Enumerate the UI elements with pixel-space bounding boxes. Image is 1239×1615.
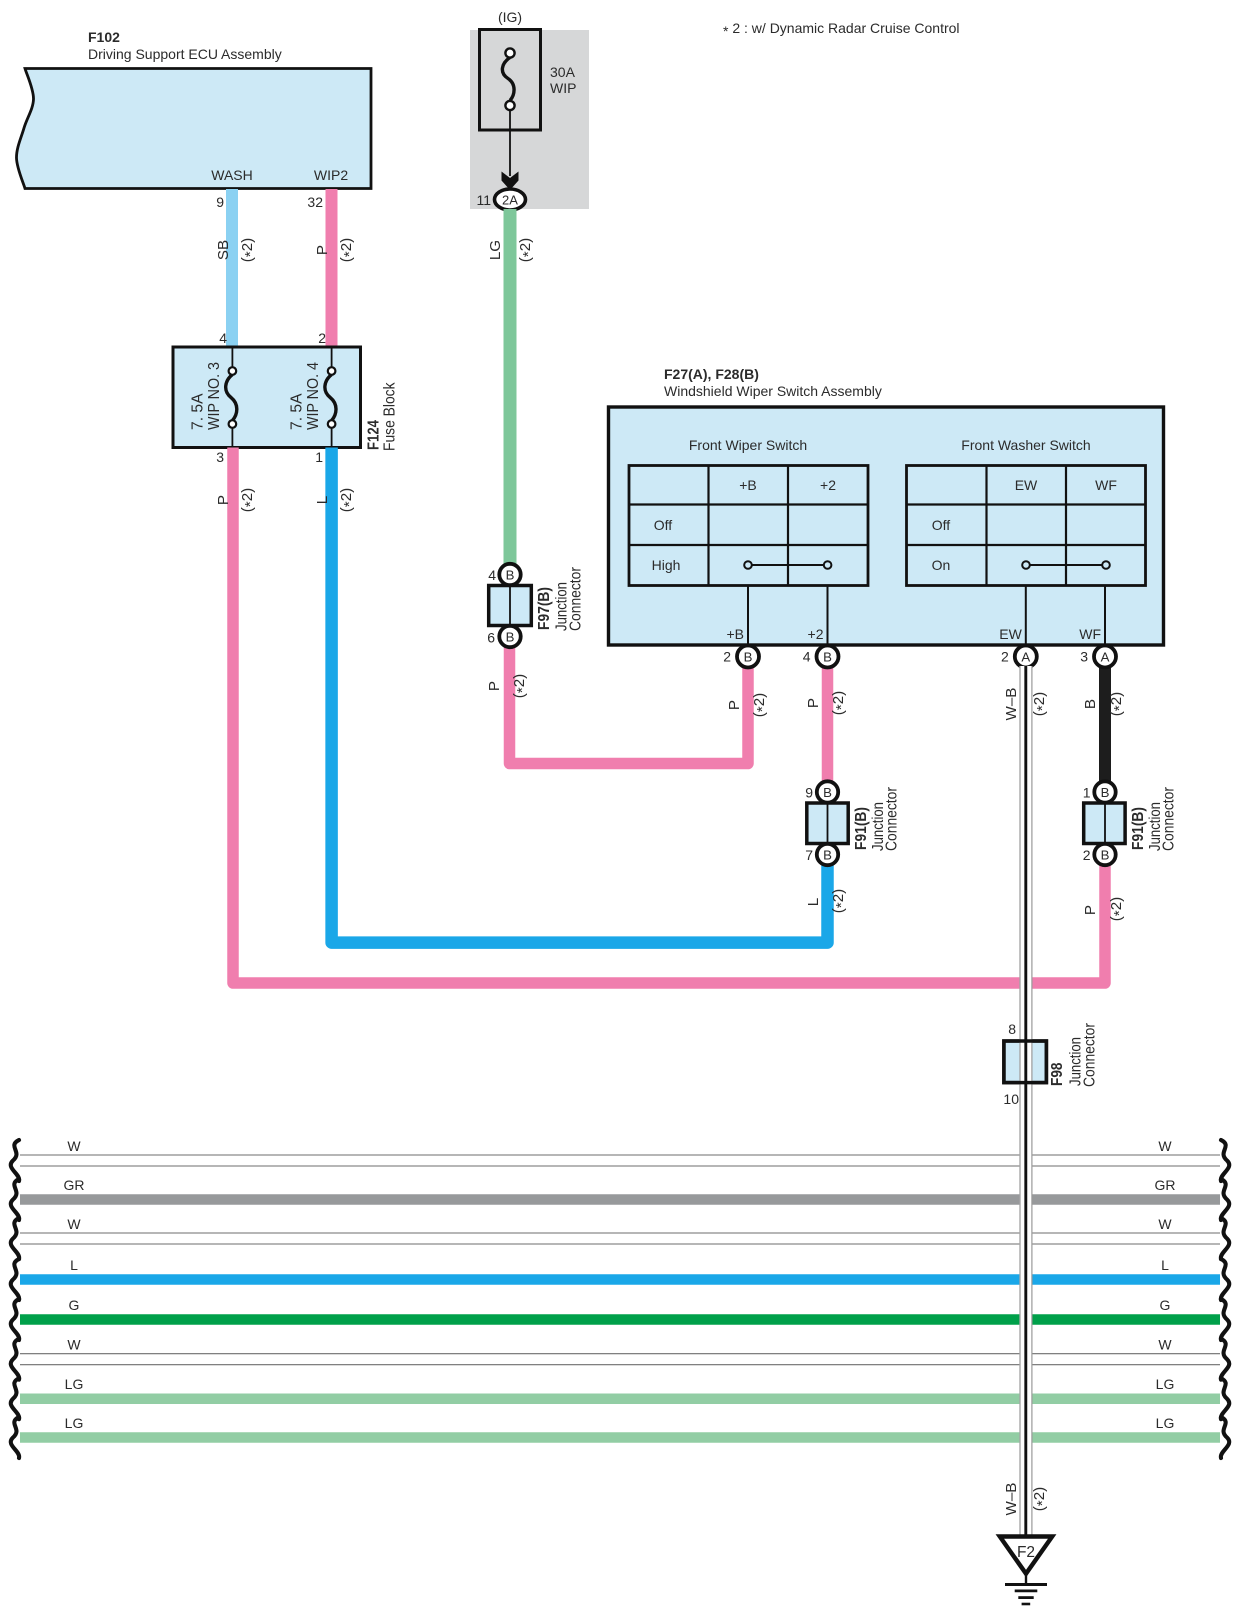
F91(B) left pin 9 — [805, 781, 838, 802]
wire GR (harness run) — [11, 1177, 1230, 1220]
svg-text:(*2): (*2) — [830, 691, 850, 716]
svg-text:+B: +B — [739, 477, 757, 493]
svg-text:7. 5A: 7. 5A — [190, 393, 207, 430]
svg-text:2: 2 — [1001, 649, 1009, 665]
svg-text:2: 2 — [1083, 847, 1091, 863]
washer switch internal wires to EW and WF terminals — [999, 586, 1105, 646]
wire P from fuse block pin 3 to F91(B) right pin 2 (long pink bus) — [233, 448, 1105, 984]
svg-text:3: 3 — [216, 449, 224, 465]
wire LG (harness run) — [11, 1415, 1230, 1458]
svg-text:Connector: Connector — [568, 566, 585, 631]
svg-text:+2: +2 — [820, 477, 836, 493]
svg-text:P: P — [486, 681, 503, 691]
svg-text:(*2): (*2) — [511, 674, 531, 699]
label P (*2) — [314, 238, 358, 263]
svg-text:LG: LG — [65, 1415, 84, 1431]
svg-text:Fuse Block: Fuse Block — [382, 382, 399, 451]
svg-text:WIP NO. 4: WIP NO. 4 — [305, 362, 322, 430]
svg-text:W: W — [67, 1216, 81, 1232]
svg-text:F91(B): F91(B) — [853, 807, 870, 850]
note: variant footnote — [723, 20, 960, 39]
svg-text:Driving Support ECU Assembly: Driving Support ECU Assembly — [88, 46, 282, 62]
F91(B) left pin 7 — [805, 844, 838, 865]
front wiper switch table — [629, 437, 868, 586]
svg-text:B: B — [744, 650, 753, 665]
svg-text:+B: +B — [726, 626, 744, 642]
svg-text:7: 7 — [805, 847, 813, 863]
svg-text:30A: 30A — [550, 64, 576, 80]
svg-text:2: 2 — [318, 330, 326, 346]
label SB (*2) — [215, 238, 259, 263]
svg-text:1: 1 — [1083, 785, 1091, 801]
svg-text:W: W — [1158, 1216, 1172, 1232]
svg-text:F97(B): F97(B) — [536, 587, 553, 630]
svg-text:W: W — [1158, 1138, 1172, 1154]
fuse block F124 — [173, 347, 361, 448]
front washer switch table — [907, 437, 1146, 586]
node 2A (pin 11) — [476, 189, 525, 210]
svg-text:B: B — [823, 785, 832, 800]
wire from fuse to node 2A with arrowhead — [502, 110, 519, 190]
F91(B) right pin 1 — [1083, 781, 1116, 802]
svg-text:7. 5A: 7. 5A — [289, 393, 306, 430]
wire L from fuse block pin 1 to F91(B) left pin 7 (blue bus) — [332, 448, 828, 943]
svg-text:W: W — [67, 1337, 81, 1353]
wire W (harness run) — [11, 1138, 1230, 1181]
wire L (harness run) — [11, 1257, 1230, 1300]
svg-text:2: 2 — [723, 649, 731, 665]
svg-text:P: P — [215, 495, 232, 505]
label W-B (*2) upper — [1003, 688, 1051, 721]
svg-text:GR: GR — [1155, 1177, 1176, 1193]
svg-text:High: High — [652, 557, 681, 573]
label L (*2) below fuse pin 1 — [314, 488, 358, 513]
svg-text:P: P — [726, 700, 743, 710]
svg-text:4: 4 — [803, 649, 811, 665]
fuse 7.5A WIP NO. 4 — [289, 348, 337, 446]
svg-text:(*2): (*2) — [338, 488, 358, 513]
svg-text:(*2): (*2) — [1031, 1487, 1051, 1512]
wire W (harness run) — [11, 1337, 1230, 1380]
connector F27(A), F28(B) Windshield Wiper Switch Assembly — [609, 366, 1164, 645]
svg-text:F27(A), F28(B): F27(A), F28(B) — [664, 366, 759, 382]
connector F102 Driving Support ECU Assembly — [16, 29, 371, 189]
svg-text:P: P — [1082, 905, 1099, 915]
switch assembly pin 3(A) — [1080, 646, 1116, 668]
front wiper switch High contact — [744, 561, 831, 569]
label P (*2) below F91(B) right pin 2 — [1082, 897, 1128, 922]
svg-text:(*2): (*2) — [1108, 897, 1128, 922]
svg-text:P: P — [805, 698, 822, 708]
svg-text:LG: LG — [1156, 1415, 1175, 1431]
F97(B) pin 4 — [488, 564, 520, 585]
label W-B (*2) lower — [1003, 1483, 1051, 1516]
svg-text:P: P — [314, 245, 331, 255]
svg-text:9: 9 — [805, 785, 813, 801]
svg-text:(*2): (*2) — [517, 238, 537, 263]
svg-text:Connector: Connector — [884, 786, 901, 851]
wire W (harness run) — [11, 1216, 1230, 1259]
svg-text:+2: +2 — [808, 626, 824, 642]
svg-text:WF: WF — [1079, 626, 1101, 642]
svg-text:F102: F102 — [88, 29, 120, 45]
svg-text:WIP: WIP — [550, 80, 576, 96]
svg-text:GR: GR — [64, 1177, 85, 1193]
svg-text:B: B — [506, 630, 515, 645]
svg-text:* 2 : w/ Dynamic Radar Cruise: * 2 : w/ Dynamic Radar Cruise Control — [723, 20, 960, 39]
svg-text:4: 4 — [488, 567, 496, 583]
svg-text:L: L — [314, 496, 331, 504]
svg-text:WIP2: WIP2 — [314, 167, 348, 183]
svg-text:Front Wiper Switch: Front Wiper Switch — [689, 437, 807, 453]
power source (IG) panel — [470, 9, 589, 209]
svg-text:Front Washer Switch: Front Washer Switch — [961, 437, 1090, 453]
svg-text:SB: SB — [215, 240, 232, 260]
svg-text:A: A — [1101, 650, 1110, 665]
F98 border redraw over wire — [1004, 1041, 1047, 1083]
svg-text:11: 11 — [476, 192, 491, 208]
svg-text:Off: Off — [932, 517, 951, 533]
label P (*2) — [805, 691, 850, 716]
F97(B) pin 6 — [487, 626, 520, 647]
wire G (harness run) — [11, 1297, 1230, 1340]
svg-text:32: 32 — [307, 194, 323, 210]
svg-text:10: 10 — [1003, 1091, 1019, 1107]
svg-text:9: 9 — [216, 194, 224, 210]
svg-text:LG: LG — [65, 1376, 84, 1392]
svg-text:W–B: W–B — [1003, 688, 1020, 721]
svg-text:On: On — [932, 557, 951, 573]
svg-text:Off: Off — [654, 517, 673, 533]
svg-text:(IG): (IG) — [498, 9, 522, 25]
ground F2 — [1000, 1537, 1052, 1605]
svg-text:B: B — [823, 650, 832, 665]
svg-text:3: 3 — [1080, 649, 1088, 665]
wire SB from F102 pin 9 to fuse block pin 4 — [226, 189, 238, 347]
svg-text:W: W — [1158, 1337, 1172, 1353]
wire P from F102 pin 32 to fuse block pin 2 — [326, 189, 338, 347]
svg-text:LG: LG — [487, 240, 504, 260]
svg-text:EW: EW — [1015, 477, 1038, 493]
svg-text:L: L — [1161, 1257, 1169, 1273]
wire LG from node 2A to junction F97(B) pin 4 — [504, 209, 517, 566]
svg-text:EW: EW — [999, 626, 1022, 642]
fuse 7.5A WIP NO. 3 — [190, 348, 237, 446]
label P (*2) on pin 2(B) side — [726, 693, 771, 718]
label L (*2) below F91(B) left pin 7 — [805, 889, 850, 914]
svg-text:(*2): (*2) — [830, 889, 850, 914]
svg-text:WF: WF — [1095, 477, 1117, 493]
svg-text:1: 1 — [315, 449, 323, 465]
svg-text:A: A — [1021, 650, 1030, 665]
svg-text:WIP NO. 3: WIP NO. 3 — [206, 362, 223, 430]
svg-text:(*2): (*2) — [1108, 692, 1128, 717]
wire P from switch pin 4(B) to F91(B) left pin 9 — [822, 666, 834, 783]
label F124 Fuse Block — [366, 382, 399, 451]
svg-text:B: B — [1101, 848, 1110, 863]
label P (*2) below fuse pin 3 — [215, 488, 259, 513]
svg-text:F2: F2 — [1017, 1544, 1035, 1561]
svg-text:8: 8 — [1008, 1021, 1016, 1037]
svg-text:L: L — [70, 1257, 78, 1273]
svg-text:G: G — [69, 1297, 80, 1313]
wiper switch internal wires to +B and +2 terminals — [726, 586, 827, 646]
svg-text:WASH: WASH — [211, 167, 252, 183]
switch assembly pin 4(B) — [803, 646, 839, 668]
svg-text:B: B — [1082, 699, 1099, 709]
wire B from switch pin 3(A) to F91(B) right pin 1 — [1099, 666, 1111, 783]
svg-text:Windshield Wiper Switch Assemb: Windshield Wiper Switch Assembly — [664, 383, 882, 399]
label B (*2) — [1082, 692, 1128, 717]
svg-text:F98: F98 — [1049, 1062, 1066, 1086]
svg-text:4: 4 — [219, 330, 227, 346]
wire LG (harness run) — [11, 1376, 1230, 1419]
fuse 30A WIP — [480, 30, 577, 131]
svg-text:Connector: Connector — [1082, 1022, 1099, 1087]
svg-text:(*2): (*2) — [338, 238, 358, 263]
svg-text:(*2): (*2) — [751, 693, 771, 718]
switch assembly pin 2(B) — [723, 646, 759, 668]
switch assembly pin 2(A) — [1001, 646, 1037, 668]
label P (*2) on F97 side — [486, 674, 531, 699]
svg-text:6: 6 — [487, 630, 495, 646]
svg-text:(*2): (*2) — [1031, 692, 1051, 717]
svg-text:B: B — [823, 848, 832, 863]
svg-text:(*2): (*2) — [239, 238, 259, 263]
label LG (*2) — [487, 238, 537, 263]
svg-text:LG: LG — [1156, 1376, 1175, 1392]
svg-text:B: B — [506, 568, 515, 583]
F91(B) right pin 2 — [1083, 844, 1116, 865]
junction connector F91(B) left — [807, 786, 901, 851]
junction connector F97(B) — [489, 566, 585, 631]
junction connector F91(B) right — [1084, 786, 1178, 851]
svg-text:W: W — [67, 1138, 81, 1154]
svg-text:B: B — [1101, 785, 1110, 800]
svg-text:F91(B): F91(B) — [1130, 807, 1147, 850]
svg-text:G: G — [1160, 1297, 1171, 1313]
svg-text:W–B: W–B — [1003, 1483, 1020, 1516]
front washer switch On contact — [1022, 561, 1110, 569]
wire P from F97(B) pin 6 to switch pin 2(B) — [510, 646, 749, 764]
svg-text:Connector: Connector — [1161, 786, 1178, 851]
svg-text:F124: F124 — [366, 420, 383, 450]
svg-text:L: L — [805, 898, 822, 906]
svg-text:2A: 2A — [502, 193, 518, 208]
wire W-B from switch pin 2(A) through F98 to ground F2 — [1019, 666, 1032, 1537]
junction connector F98 — [1003, 1021, 1098, 1107]
svg-text:(*2): (*2) — [239, 488, 259, 513]
